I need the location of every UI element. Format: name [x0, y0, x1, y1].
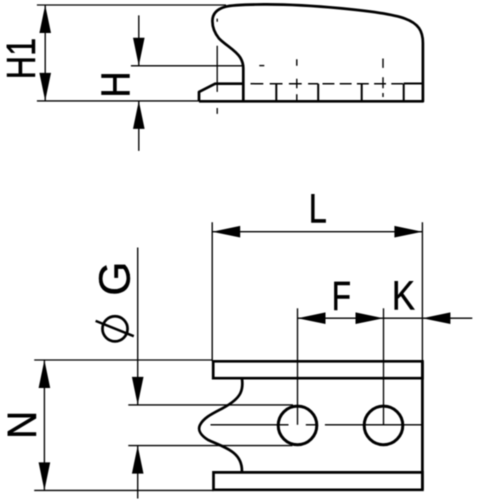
dimension N line with arrows	[39, 360, 51, 490]
dimension G extension line bottom	[128, 445, 292, 447]
svg-text:G: G	[90, 262, 139, 296]
dimension F line with arrows	[298, 312, 384, 324]
bottom view: wavy left profile edge	[199, 378, 242, 472]
hole 2 vertical centerline	[383, 308, 385, 425]
dimension K label	[392, 274, 415, 319]
svg-text:L: L	[309, 186, 327, 231]
dimension L extension line right	[421, 222, 423, 361]
dimension H1 label	[0, 38, 44, 79]
top view: serration tick 2	[317, 84, 319, 102]
top view: serration tick 3	[361, 84, 363, 102]
dimension H label	[94, 71, 139, 97]
dimension H1 extension line top	[37, 4, 226, 6]
dimension L line with arrows	[212, 226, 422, 238]
svg-text:K: K	[392, 274, 415, 319]
dimension F label	[332, 273, 351, 319]
svg-text:H: H	[94, 71, 139, 97]
dimension K line with arrow	[384, 312, 473, 324]
top view: part side profile outline	[199, 4, 423, 101]
bottom view: hole 2	[364, 406, 403, 445]
dimension L extension line left	[211, 222, 213, 361]
top view: hole 1 centerline (hidden)	[296, 59, 298, 101]
dimension H1 extension line bottom	[37, 100, 199, 102]
dimension G label	[90, 262, 139, 342]
svg-text:F: F	[332, 273, 351, 319]
top view: hole 2 centerline (hidden)	[382, 59, 384, 98]
top view: chamfered foot edge	[199, 84, 243, 102]
bottom view: top flange bar	[213, 361, 422, 378]
top view: serration tick 4	[403, 84, 405, 102]
dimension G line with arrows	[132, 248, 144, 499]
dimension H line with arrows	[133, 15, 145, 151]
top view: serration tick 1	[275, 84, 277, 102]
top view: hidden edge short dash	[259, 65, 264, 67]
svg-text:H1: H1	[0, 38, 44, 79]
svg-text:N: N	[0, 411, 45, 439]
dimension N extension line top	[34, 359, 212, 361]
dimension N extension line bottom	[34, 489, 213, 491]
top view: centerline left	[216, 19, 218, 114]
bottom view: right edge	[421, 361, 424, 490]
bottom view: bottom flange bar	[214, 472, 423, 489]
dimension G extension line top	[128, 404, 293, 406]
top view: hidden edge dashed line	[251, 83, 423, 85]
dimension H extension line	[131, 65, 242, 67]
dimension L label	[309, 186, 327, 231]
bottom view: horizontal centerline through holes	[211, 424, 422, 426]
dimension H1 line with arrows	[39, 5, 51, 101]
bottom view: hole 1	[278, 406, 317, 445]
dimension N label	[0, 411, 45, 439]
hole 1 vertical centerline	[297, 308, 299, 425]
